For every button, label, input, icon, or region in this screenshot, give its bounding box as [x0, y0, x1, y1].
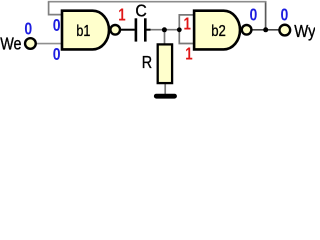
node junction b2 inputs: [177, 27, 182, 32]
node junction capacitor/resistor: [162, 27, 167, 32]
svg-text:1: 1: [185, 43, 193, 63]
svg-text:0: 0: [250, 4, 258, 24]
wire feedback net: from b2 output junction up, along top, down into b1 top input: [48, 1, 267, 30]
wire b2 output to Wy terminal: [251, 29, 279, 31]
NAND gate b2: [194, 11, 251, 50]
svg-text:We: We: [0, 34, 21, 54]
svg-text:b2: b2: [211, 23, 226, 40]
svg-text:R: R: [142, 52, 152, 72]
wire capacitor to node: [149, 29, 179, 31]
wire node down to resistor top: [164, 30, 166, 44]
svg-text:1: 1: [118, 4, 126, 24]
node junction feedback at output: [263, 27, 268, 32]
svg-text:C: C: [135, 1, 147, 21]
input terminal We: [0, 34, 36, 54]
wire node to b2 inputs (vertical with stubs): [179, 15, 193, 44]
svg-text:0: 0: [24, 18, 32, 38]
svg-text:0: 0: [281, 4, 289, 24]
svg-text:1: 1: [184, 14, 192, 34]
resistor R: [142, 44, 172, 83]
svg-text:0: 0: [53, 44, 61, 64]
capacitor C: [121, 1, 151, 42]
NAND gate b1: [62, 11, 120, 50]
svg-text:b1: b1: [76, 23, 90, 40]
svg-text:0: 0: [53, 15, 61, 35]
svg-text:Wy: Wy: [294, 21, 315, 41]
output terminal Wy: [279, 21, 315, 41]
wire We terminal to b1 bottom input: [37, 43, 63, 45]
wire resistor bottom to ground: [164, 84, 166, 94]
ground: [154, 94, 177, 99]
